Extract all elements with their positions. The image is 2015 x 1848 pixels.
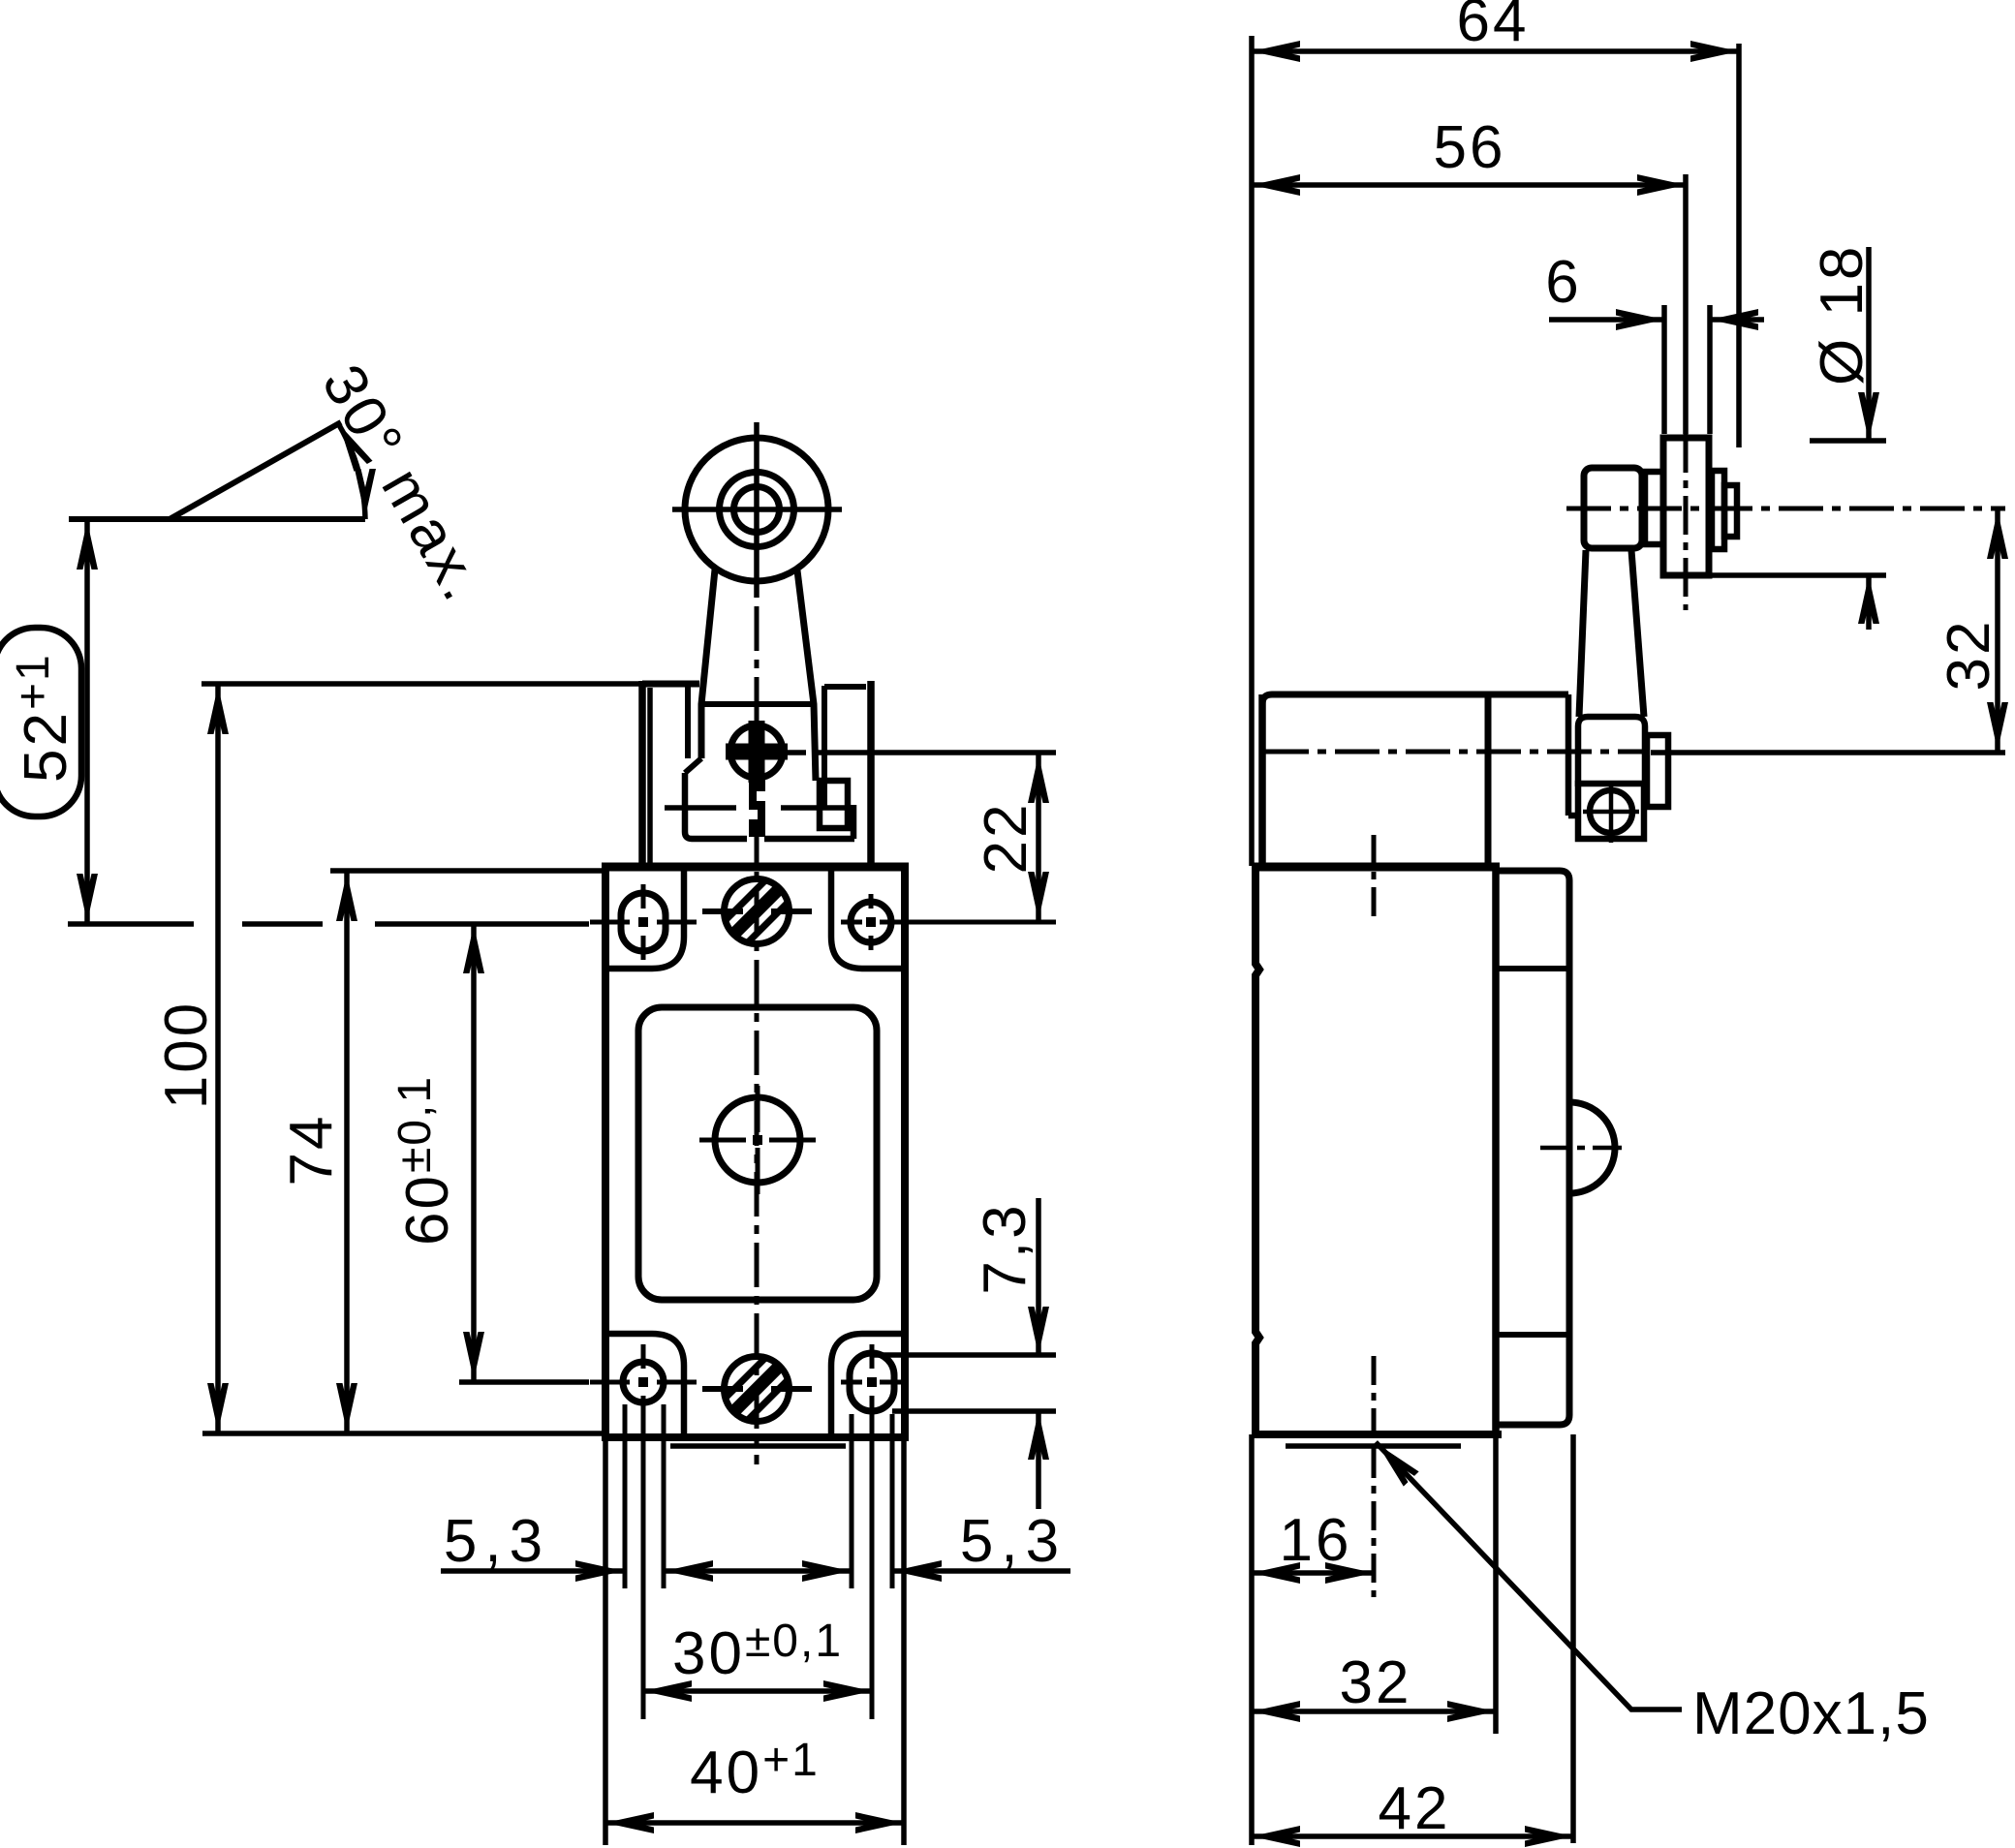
head opening right edge	[821, 686, 827, 807]
lever rest position line	[69, 516, 365, 522]
cover circle crosshair v-bottom	[756, 1148, 760, 1194]
roller bottom extension line	[1709, 572, 1886, 578]
svg-text:7,3: 7,3	[972, 1202, 1038, 1294]
clamp right jaw vertical edge	[851, 805, 857, 839]
bottom screw hatch line NW	[725, 1357, 766, 1399]
head block right inner edge	[1485, 694, 1492, 863]
body right edge (front)	[901, 867, 909, 1437]
svg-text:100: 100	[153, 1001, 220, 1109]
head right edge (front)	[867, 681, 875, 863]
BL hole left edge extension	[623, 1404, 628, 1588]
front view: limit switch with roller lever	[201, 422, 1056, 1464]
head inner top right edge	[824, 684, 866, 690]
pivot screw cross horizontal bar	[726, 744, 788, 760]
7,3 dim line upper tail	[1036, 1198, 1041, 1355]
conduit boss center line	[1540, 1146, 1627, 1151]
bottom-right mounting pocket outline	[831, 1334, 901, 1433]
clamp screw circle in square	[1590, 790, 1632, 833]
svg-text:32: 32	[1936, 619, 2002, 692]
BL hole crosshair v-bottom	[641, 1396, 646, 1420]
100 dim line	[215, 684, 221, 1433]
BL hole center dot	[638, 1377, 648, 1387]
roller hub circle	[734, 487, 780, 533]
BL hole crosshair v-top	[641, 1344, 646, 1369]
52 dim line	[84, 519, 90, 924]
svg-text:5,3: 5,3	[960, 1508, 1067, 1575]
body front (right) edge side view	[1492, 867, 1500, 1434]
lever left edge (front)	[701, 570, 715, 758]
top screw h center line left	[702, 909, 743, 914]
TL slot crosshair v-top	[641, 884, 646, 909]
cover upper joint line	[1496, 966, 1569, 971]
clamp bottom edge right part	[764, 836, 854, 843]
clamp chamfer line	[685, 758, 701, 773]
dimension 5,3 slot widths	[441, 1404, 1070, 1588]
lever left edge (side)	[1579, 550, 1586, 717]
bottom screw h center line right	[771, 1386, 812, 1392]
svg-text:56: 56	[1434, 114, 1506, 181]
svg-text:M20x1,5: M20x1,5	[1692, 1680, 1930, 1747]
body top extension line	[330, 868, 602, 874]
lever right edge (side)	[1631, 550, 1644, 717]
5,3 middle connector line	[666, 1568, 850, 1574]
cover center circle	[715, 1097, 800, 1183]
clamp left bracket outline	[685, 773, 747, 839]
body top edge (side)	[1252, 863, 1500, 872]
M20 leader arrow	[1370, 1436, 1419, 1486]
32 dim line bottom	[1252, 1709, 1496, 1714]
fork top line in head	[702, 701, 814, 707]
axle spacer washer	[1645, 472, 1663, 544]
dimension 16 cable entry offset	[1252, 1434, 1374, 1845]
roller center line vertical dash-dot	[1684, 434, 1689, 610]
dimension 100 overall height	[153, 684, 229, 1433]
bottom-left mounting hole circle	[623, 1362, 664, 1402]
BL hole crosshair h-right	[657, 1380, 697, 1385]
head left edge (front)	[638, 681, 646, 863]
40 dim line	[605, 1820, 904, 1826]
axle outer washer	[1712, 471, 1724, 549]
body front extension line	[1493, 1434, 1499, 1734]
svg-text:16: 16	[1280, 1507, 1352, 1574]
svg-text:6: 6	[1545, 249, 1581, 316]
bottom step line (front)	[670, 1443, 846, 1449]
top screw hatch line SE	[747, 902, 789, 943]
56 dim line	[1252, 182, 1686, 188]
dimension 40+1 body width	[202, 1433, 904, 1845]
svg-text:42: 42	[1379, 1775, 1451, 1842]
hole row extension line seg1	[68, 921, 194, 927]
pivot center extension line to 22 dim	[818, 750, 1056, 755]
top screw hatch line NW	[725, 879, 766, 921]
bottom screw hatch line SE	[747, 1379, 789, 1421]
TR hole crosshair v-top	[869, 894, 874, 909]
top cable entry center line (side)	[1372, 835, 1377, 920]
64 dim line	[1252, 48, 1739, 54]
pivot center line through head (side)	[1264, 750, 1647, 755]
head top edge (front)	[642, 681, 699, 688]
arc arrow lower	[355, 469, 376, 517]
hole row extension line seg2	[242, 921, 323, 927]
6 dim line left part	[1549, 317, 1664, 323]
cover lower joint line	[1496, 1332, 1569, 1338]
extension line of head top toward 100 dim	[201, 681, 642, 687]
head inner left wall	[647, 688, 653, 863]
cover circle crosshair h-left	[699, 1138, 746, 1143]
svg-text:Ø 18: Ø 18	[1809, 244, 1875, 385]
body top edge (front)	[602, 863, 909, 872]
TR hole crosshair h-right extended to 22 dim	[880, 920, 1056, 925]
cover front extension line	[1570, 1434, 1576, 1843]
clamp center line right segment	[781, 805, 854, 811]
top-right mounting pocket outline	[831, 871, 901, 969]
oval frame around 52+1	[0, 628, 81, 816]
16 dim line	[1252, 1570, 1374, 1576]
dimension 22 head height	[973, 753, 1049, 922]
head opening left edge	[685, 684, 691, 758]
slot bottom extension line	[892, 1408, 1056, 1414]
bottom step line (side)	[1286, 1443, 1461, 1449]
head sub-block right edge	[1565, 694, 1572, 816]
body left edge (front)	[602, 867, 609, 1437]
BR slot crosshair v-top	[870, 1344, 875, 1369]
lever 30 deg tilted line	[170, 422, 341, 519]
dimension 64 overall depth	[1252, 0, 1739, 866]
roller right face extension line	[1707, 305, 1713, 434]
lever pivot screw circle	[730, 725, 783, 778]
7,3 dim line lower tail	[1036, 1411, 1041, 1509]
TL slot center dot	[638, 917, 648, 927]
top-left oblong mounting slot 5.3x7.3	[621, 893, 666, 951]
cover plate rounded rectangle	[638, 1007, 877, 1300]
cover circle crosshair v-top	[756, 1086, 760, 1132]
top screw slot diagonal	[733, 888, 780, 935]
64 right extension line	[1736, 44, 1742, 447]
TR hole crosshair v-bottom	[869, 936, 874, 950]
roller intermediate circle	[720, 473, 794, 547]
BR slot center extension line	[870, 1420, 875, 1719]
TR hole crosshair h-left	[841, 920, 862, 925]
lever right edge (front)	[797, 570, 816, 781]
bottom-right oblong mounting slot 5.3x7.3	[850, 1353, 894, 1411]
body bottom edge (front)	[602, 1433, 909, 1441]
BL hole right edge extension	[662, 1404, 666, 1588]
TL slot crosshair v-bottom	[641, 936, 646, 960]
side view of limit switch	[1252, 174, 2005, 1449]
clamp screw crosshair v	[1609, 781, 1614, 843]
dimension 56 to roller center	[1252, 114, 1686, 196]
dia18 upper tail	[1866, 247, 1872, 441]
cover circle center dot	[753, 1135, 762, 1145]
22 dim line	[1036, 753, 1041, 922]
pivot screw threaded shank	[749, 778, 765, 837]
dimension 60+-0.1 hole spacing	[68, 923, 589, 1382]
dimension 52+1 lever height	[0, 519, 98, 924]
BR slot crosshair h-right	[880, 1380, 902, 1385]
cable entry center extension	[1372, 1449, 1377, 1597]
bottom-left mounting pocket outline	[609, 1334, 684, 1433]
top-right mounting hole circle	[851, 902, 891, 942]
roller top extension line	[1810, 438, 1886, 444]
body right edge extension line	[901, 1437, 907, 1845]
axle center line horizontal	[1566, 507, 2005, 511]
BR slot center dot	[867, 1377, 877, 1387]
roller horizontal center line	[672, 507, 842, 512]
svg-text:74: 74	[278, 1114, 345, 1186]
cable entry center line	[1372, 1356, 1377, 1449]
BR slot right edge extension	[890, 1414, 895, 1588]
svg-text:64: 64	[1457, 0, 1530, 54]
BL hole crosshair h-left	[590, 1380, 630, 1385]
body left edge extension line	[603, 1437, 608, 1845]
M20 leader line	[1376, 1442, 1682, 1709]
clamp screw crosshair h	[1583, 810, 1639, 815]
svg-text:22: 22	[973, 802, 1039, 875]
BR slot crosshair v-bottom	[870, 1396, 875, 1420]
conduit boss bump (side)	[1569, 1102, 1615, 1193]
bottom screw h center line left	[702, 1386, 743, 1392]
body back extension line lower	[1249, 1434, 1255, 1845]
vertical center line through roller (solid part)	[754, 422, 759, 598]
dimension 6 roller width	[1545, 249, 1764, 434]
svg-text:5,3: 5,3	[444, 1508, 550, 1575]
BR slot left edge extension	[850, 1414, 854, 1588]
head left edge (side)	[1258, 694, 1266, 863]
dimension 32 roller center to pivot	[1936, 508, 2008, 753]
30 deg angle arc	[338, 423, 365, 519]
lever top axle block (side)	[1584, 468, 1642, 548]
clamp tab right of boss	[1647, 735, 1668, 807]
top screw h center line right	[771, 909, 812, 914]
dimension diameter 18 roller	[1709, 244, 1886, 630]
dimension 7,3 slot height	[870, 1198, 1056, 1509]
slot top extension line	[870, 1352, 1056, 1358]
body bottom extension line to 100/74 dims	[202, 1431, 602, 1436]
svg-text:32: 32	[1340, 1649, 1412, 1716]
pivot screw cross vertical bar	[749, 721, 765, 783]
6 dim line right part	[1710, 317, 1764, 323]
30 dim line	[643, 1688, 872, 1694]
arc arrow upper	[329, 419, 372, 472]
roller outer circle (front)	[685, 438, 828, 581]
TL slot crosshair h-left	[590, 920, 630, 925]
body bottom edge (side)	[1252, 1431, 1502, 1438]
M20x1,5 cable entry label	[1370, 1436, 1930, 1747]
pivot center line dash right of screw	[787, 750, 806, 755]
body back extension line upper	[1249, 36, 1255, 866]
5,3 left dim line	[441, 1568, 624, 1574]
TR hole center dot	[866, 917, 876, 927]
roller disk (side)	[1663, 438, 1709, 575]
74 dim line	[344, 871, 350, 1433]
TL slot crosshair h-right	[657, 920, 697, 925]
56 extension / roller center plane line	[1683, 174, 1689, 434]
body back (left) edge side view with seam jogs	[1255, 866, 1259, 1434]
dimension 30+-0,1 hole spacing horizontal	[643, 1420, 872, 1719]
pivot center extension line to 32 dim	[1651, 750, 2005, 755]
hole row extension line seg3	[375, 921, 589, 927]
42 dim line	[1252, 1833, 1573, 1839]
top-left mounting pocket outline	[609, 871, 684, 969]
dia18 lower tail	[1866, 575, 1872, 630]
cover plate outline (side)	[1496, 871, 1569, 1425]
clamp square nut (front)	[820, 781, 848, 828]
dimension 74 body height	[278, 871, 602, 1433]
clamp screw square (side)	[1578, 784, 1644, 839]
60 dim line	[471, 923, 477, 1382]
cover circle crosshair h-right	[769, 1138, 816, 1143]
5,3 right dim line	[893, 1568, 1070, 1574]
clamp center line left segment	[665, 805, 736, 811]
bottom cover screw (hatched)	[725, 1357, 790, 1422]
32 dim line right side	[1995, 508, 2000, 753]
axle end nut	[1724, 485, 1737, 537]
dimension 32 body depth	[1252, 1434, 1496, 1734]
bottom screw slot diagonal	[733, 1366, 780, 1412]
sub-block to boss connector	[1568, 813, 1578, 819]
30 deg max lever travel symbol	[69, 354, 497, 614]
vertical dash-dot center line of front view	[755, 606, 759, 1464]
BL hole center extension line	[641, 1420, 646, 1719]
top cover screw (hatched)	[725, 879, 790, 944]
roller left face extension line	[1661, 305, 1667, 434]
lower hole row extension line	[459, 1379, 589, 1385]
head top edge (side)	[1262, 694, 1568, 704]
lever pivot boss (side)	[1578, 717, 1645, 786]
dimension 42 with cover	[1252, 1434, 1573, 1847]
BR slot crosshair h-left	[841, 1380, 862, 1385]
